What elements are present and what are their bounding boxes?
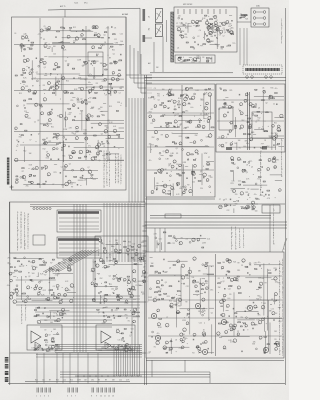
capacitor MC9 (electrolytic): [237, 167, 239, 169]
wire: [105, 153, 119, 155]
svg-text:R7: R7: [46, 138, 48, 140]
resistor DR34: [43, 143, 45, 144]
page edge rule: [285, 8, 287, 385]
svg-text:Q1: Q1: [248, 147, 250, 149]
svg-text:C22: C22: [93, 261, 96, 263]
junction: [203, 120, 206, 123]
transistor QQ6: [133, 278, 136, 281]
resistor QR13: [115, 261, 118, 262]
wire: [19, 45, 26, 47]
wire: [31, 78, 88, 80]
inductor LL33: [261, 143, 264, 146]
transistor FQ6: [209, 31, 212, 34]
inductor BL51: [33, 92, 36, 95]
junction: [261, 126, 264, 129]
transistor JQ4: [168, 90, 171, 93]
capacitor EC8: [22, 176, 25, 178]
svg-text:4: 4: [48, 396, 49, 398]
transistor ABQ2: [25, 36, 28, 39]
svg-text:560: 560: [215, 44, 218, 46]
bus wire: [59, 254, 99, 256]
resistor QR20: [105, 294, 108, 295]
resistor NBR3: [168, 243, 170, 244]
svg-text:R12: R12: [56, 380, 59, 382]
section box bottom (double): [145, 198, 215, 200]
svg-text:5: 5: [282, 289, 283, 291]
wire: [262, 94, 264, 132]
resistor KR43: [179, 175, 181, 176]
junction: [28, 167, 31, 170]
svg-text:C7: C7: [29, 139, 31, 141]
wire: [21, 276, 23, 300]
capacitor HC3 (electrolytic): [244, 15, 246, 17]
resistor PR43: [14, 258, 16, 259]
capacitor LC12: [238, 110, 241, 112]
svg-text:R9: R9: [199, 61, 201, 63]
wire: [150, 144, 152, 153]
transistor PQ9: [9, 272, 12, 275]
svg-text:R1: R1: [204, 107, 206, 109]
svg-text:R7: R7: [151, 109, 153, 111]
svg-text:T: T: [273, 212, 274, 214]
resistor BR19: [105, 69, 107, 70]
junction: [115, 288, 118, 291]
resistor AR15: [83, 39, 86, 40]
transistor BQ25: [103, 63, 106, 66]
svg-text:C2: C2: [273, 103, 275, 105]
wire: [20, 44, 22, 52]
wire: [14, 257, 44, 259]
svg-text:S: S: [273, 229, 274, 231]
bus wire: [59, 225, 99, 227]
lamp PL1: [253, 11, 256, 14]
resistor QR31: [113, 275, 115, 276]
svg-text:C2: C2: [34, 122, 36, 124]
resistor FR4: [203, 44, 206, 45]
svg-text:C22: C22: [199, 322, 202, 324]
junction: [248, 164, 251, 167]
junction: [61, 46, 64, 49]
resistor LR19: [247, 122, 249, 123]
resistor NBR1: [169, 236, 172, 237]
wire: [44, 141, 84, 143]
capacitor BC5: [73, 78, 76, 80]
switch assembly S4: [57, 237, 101, 258]
transistor FQ14: [209, 32, 212, 35]
inductor FAL8: [227, 30, 230, 33]
transistor PQ11: [34, 287, 37, 290]
transistor QQ9: [92, 299, 95, 302]
resistor DR42: [68, 108, 71, 109]
transistor BQ4: [111, 77, 114, 80]
transistor LQ26: [221, 135, 224, 138]
resistor QR2: [117, 294, 119, 295]
svg-text:C4: C4: [14, 33, 16, 35]
wire: [40, 123, 52, 125]
transistor FQ1: [191, 20, 194, 23]
svg-text:100: 100: [70, 184, 73, 186]
resistor FAR1: [210, 23, 212, 24]
svg-text:C4: C4: [199, 30, 201, 32]
transistor PQ8: [67, 267, 71, 271]
resistor QR37: [134, 263, 136, 264]
capacitor JC40: [167, 108, 170, 110]
resistor MR2: [231, 160, 234, 161]
wire: [199, 57, 201, 61]
connector pad: [143, 9, 146, 21]
svg-text:R21: R21: [35, 380, 38, 382]
transistor QQ23: [128, 292, 131, 295]
svg-text:220: 220: [210, 58, 213, 60]
switch contact: [171, 37, 174, 39]
wire: [67, 292, 76, 294]
svg-text:7: 7: [120, 184, 121, 186]
wire: [52, 42, 113, 44]
resistor FR7: [227, 29, 229, 30]
transistor KQ6: [208, 134, 212, 138]
resistor KR19: [198, 180, 201, 181]
capacitor PC44 (electrolytic): [16, 285, 18, 287]
capacitor LC3: [220, 88, 223, 90]
wire: [154, 177, 156, 189]
capacitor NBC6: [199, 235, 202, 237]
junction: [100, 47, 103, 50]
capacitor BC41: [95, 55, 98, 57]
wire: [165, 145, 209, 147]
wire: [206, 160, 214, 162]
resistor BR48: [119, 60, 122, 61]
switch contact S2-4: [43, 207, 45, 209]
svg-text:R3: R3: [214, 30, 216, 32]
svg-text:R9: R9: [265, 283, 267, 285]
resistor AR2: [110, 46, 113, 47]
svg-text:220: 220: [71, 265, 74, 267]
transistor JQ16: [183, 103, 186, 106]
svg-text:Q5: Q5: [224, 32, 226, 34]
svg-text:R21: R21: [231, 183, 234, 185]
svg-text:T: T: [282, 314, 283, 316]
resistor PR7: [44, 262, 47, 263]
svg-text:220: 220: [178, 175, 181, 177]
svg-text:C7: C7: [208, 157, 210, 159]
component (dark): [226, 147, 232, 150]
resistor LR14: [248, 134, 251, 135]
junction: [207, 15, 210, 18]
capacitor PC40 (electrolytic): [43, 261, 45, 263]
svg-text:Q2: Q2: [37, 120, 39, 122]
svg-text:R9: R9: [238, 263, 240, 265]
junction: [38, 84, 41, 87]
capacitor JC33 (electrolytic): [199, 119, 201, 121]
junction: [238, 196, 241, 199]
transistor PQ22: [68, 266, 71, 269]
wire: [243, 184, 267, 186]
svg-text:560: 560: [119, 88, 122, 90]
junction: [260, 112, 263, 115]
resistor AR11: [113, 34, 116, 35]
capacitor MC12 (electrolytic): [255, 183, 257, 185]
resistor BR1: [41, 59, 44, 60]
meter M1 (signal): [156, 9, 163, 23]
junction: [231, 140, 234, 143]
junction: [250, 120, 253, 123]
capacitor EC2: [64, 176, 67, 178]
wire: [172, 132, 198, 134]
capacitor AC25: [98, 37, 101, 39]
svg-text:F: F: [282, 308, 283, 310]
wire: [233, 208, 235, 213]
transistor PQ20: [15, 290, 18, 293]
capacitor KC8: [196, 153, 199, 155]
bus wire: [217, 99, 284, 101]
transistor FQ12: [196, 21, 199, 24]
resistor JR15: [190, 88, 193, 89]
svg-text:4: 4: [282, 259, 283, 261]
wiring bus: [106, 203, 108, 262]
resistor LR35: [257, 111, 260, 112]
svg-text:C7: C7: [216, 28, 218, 30]
transistor HQ1: [246, 76, 249, 79]
transistor DQ10: [108, 136, 111, 139]
svg-text:C22: C22: [227, 210, 230, 212]
capacitor LC30: [227, 112, 230, 114]
svg-text:47u: 47u: [254, 194, 257, 196]
svg-text:C22: C22: [228, 289, 231, 291]
transistor BQ3: [55, 82, 58, 85]
capacitor PC18 (electrolytic): [70, 269, 72, 271]
resistor BR3: [66, 92, 69, 93]
resistor GR9: [206, 61, 208, 62]
capacitor AC4 (electrolytic): [46, 29, 48, 31]
svg-text:R3: R3: [275, 341, 277, 343]
svg-text:7: 7: [282, 284, 283, 286]
transistor AQ8: [40, 29, 43, 32]
capacitor NBC2: [157, 244, 160, 246]
resistor DR13: [72, 120, 74, 121]
svg-text:Q1: Q1: [103, 146, 105, 148]
wire: [156, 240, 158, 248]
transistor JQ3: [185, 87, 188, 90]
svg-text:R3: R3: [25, 276, 27, 278]
switch contact: [171, 25, 174, 27]
capacitor FC32: [180, 32, 183, 34]
transistor BQ30: [28, 89, 31, 92]
transistor EQ9: [29, 174, 32, 177]
transistor BQ18: [104, 78, 107, 81]
resistor BR8: [23, 82, 26, 83]
svg-text:3: 3: [281, 144, 282, 146]
capacitor BC50: [48, 89, 51, 91]
resistor JR13: [161, 116, 164, 117]
inductor FL20: [229, 14, 232, 17]
svg-text:R21: R21: [51, 126, 54, 128]
junction: [113, 289, 116, 292]
svg-text:0.01: 0.01: [207, 238, 210, 240]
svg-text:8: 8: [91, 396, 92, 398]
capacitor BC42 (electrolytic): [53, 89, 55, 91]
svg-text:Q5: Q5: [23, 105, 25, 107]
svg-text:1/2W: 1/2W: [31, 348, 35, 350]
transistor DQ5: [47, 154, 50, 157]
capacitor EC19: [44, 181, 47, 183]
transistor LQ19: [223, 114, 226, 117]
transistor QQ4: [143, 280, 146, 283]
crossing wire: [58, 250, 98, 272]
section box bottom: [145, 203, 286, 205]
wire: [176, 25, 192, 27]
svg-text:Q1: Q1: [212, 27, 214, 29]
wire: [192, 164, 194, 196]
resistor FR21: [217, 27, 219, 28]
svg-text:R3: R3: [96, 61, 98, 63]
switch contact: [171, 16, 174, 18]
svg-text:C22: C22: [120, 33, 123, 35]
transistor LQ18: [251, 104, 254, 107]
capacitor DC60: [67, 146, 70, 148]
resistor KR15: [174, 143, 176, 144]
resistor PR42: [57, 297, 59, 298]
svg-text:3: 3: [273, 230, 274, 232]
transistor EQ5: [88, 170, 92, 174]
svg-text:R7: R7: [44, 275, 46, 277]
bus wire: [150, 217, 271, 219]
junction: [180, 58, 183, 61]
capacitor FAC3 (electrolytic): [207, 27, 209, 29]
wire: [204, 31, 206, 40]
capacitor AC12: [110, 26, 113, 28]
connector pin: [143, 250, 147, 252]
resistor JR7: [171, 95, 174, 96]
svg-text:C15: C15: [118, 339, 121, 341]
svg-text:R1: R1: [128, 321, 130, 323]
resistor PR20: [49, 278, 51, 279]
capacitor BC30: [90, 63, 93, 65]
resistor DR21: [94, 135, 97, 136]
junction: [25, 264, 28, 267]
junction: [66, 56, 69, 59]
capacitor QC17: [100, 291, 103, 293]
transistor MQ10: [233, 190, 236, 193]
junction: [170, 170, 173, 173]
resistor BR45: [110, 63, 112, 64]
resistor QR38: [102, 261, 105, 262]
resistor PR45: [52, 259, 54, 260]
capacitor NBC8 (electrolytic): [173, 236, 175, 238]
resistor MR5: [242, 169, 245, 170]
junction: [63, 26, 66, 29]
resistor KR14: [192, 171, 195, 172]
junction: [174, 237, 177, 240]
transistor EQ4: [81, 168, 84, 171]
transistor MQ4: [272, 159, 275, 162]
svg-text:0.01: 0.01: [183, 190, 186, 192]
svg-text:R7: R7: [166, 272, 168, 274]
svg-text:R21: R21: [167, 296, 170, 298]
resistor JR5: [151, 97, 154, 98]
transistor LQ16: [240, 112, 243, 115]
junction: [80, 184, 83, 187]
capacitor QC26: [94, 278, 97, 280]
junction: [29, 297, 32, 300]
capacitor BC22: [93, 86, 96, 88]
svg-text:3: 3: [44, 396, 45, 398]
svg-text:5: 5: [282, 353, 283, 355]
inductor BL20: [55, 85, 58, 88]
junction: [252, 202, 255, 205]
svg-text:Q2: Q2: [258, 128, 260, 130]
transistor KQ1: [193, 141, 196, 144]
wire: [55, 134, 120, 136]
inductor AL1: [38, 33, 41, 36]
switch contact: [171, 49, 174, 51]
resistor FR30: [197, 25, 199, 26]
bus wire: [145, 80, 287, 82]
resistor DR55: [21, 135, 24, 136]
junction: [239, 16, 242, 19]
svg-text:T: T: [282, 294, 283, 296]
wire: [27, 103, 70, 105]
capacitor KC5: [194, 177, 197, 179]
resistor PR28: [50, 290, 53, 291]
svg-text:R9: R9: [41, 169, 43, 171]
transistor LQ4: [275, 135, 278, 138]
capacitor FC9: [195, 25, 198, 27]
svg-text:C7: C7: [206, 35, 208, 37]
svg-text:C15: C15: [179, 348, 182, 350]
transistor BQ22: [43, 61, 46, 64]
transistor BQ28: [62, 77, 65, 80]
svg-text:2: 2: [28, 248, 29, 250]
svg-text:C9: C9: [135, 309, 137, 311]
capacitor QC33: [116, 296, 119, 298]
svg-text:0.01: 0.01: [113, 126, 116, 128]
svg-text:C7: C7: [176, 23, 178, 25]
junction: [199, 104, 202, 107]
resistor JR39: [180, 96, 182, 97]
wire: [216, 29, 218, 49]
junction: [115, 273, 118, 276]
wire: [138, 87, 152, 89]
bus wire: [147, 112, 214, 114]
svg-text:Q5: Q5: [246, 172, 248, 174]
resistor NR4: [241, 208, 243, 209]
capacitor KC24: [175, 168, 178, 170]
capacitor KC11 (electrolytic): [176, 183, 178, 185]
resistor JR24: [160, 104, 162, 105]
capacitor JC21: [198, 121, 201, 123]
capacitor JC11: [178, 107, 181, 109]
section box (filter amp): [216, 84, 285, 152]
transistor NQ1: [247, 206, 250, 209]
svg-text:R9: R9: [35, 267, 37, 269]
svg-text:Q2: Q2: [154, 273, 156, 275]
wiring bus: [136, 203, 138, 262]
svg-text:E: E: [281, 166, 282, 168]
svg-text:9: 9: [281, 171, 282, 173]
resistor HR4: [244, 15, 247, 16]
svg-text:ST: ST: [147, 16, 149, 18]
junction: [22, 141, 25, 144]
transistor QQ1: [115, 261, 118, 264]
svg-text:560: 560: [50, 322, 53, 324]
transistor NQ5: [251, 201, 254, 204]
resistor KR13: [155, 146, 157, 147]
resistor LR38: [262, 100, 265, 101]
junction: [176, 124, 179, 127]
connector J1 pins: [245, 68, 280, 71]
wire: [162, 37, 164, 73]
junction: [79, 113, 82, 116]
